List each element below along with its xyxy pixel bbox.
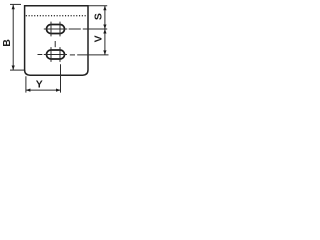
dim Y left extension line: [25, 76, 27, 92]
dim S arrow down to slot1 axis: [103, 25, 106, 30]
slot 2 centerline extension right segment 1: [70, 54, 75, 56]
slot 1 centerline extension right segment 1: [69, 28, 81, 30]
dim B bottom extension line: [10, 69, 24, 71]
slot 2 centerline extension right segment 2 (V bottom extension): [77, 54, 108, 56]
svg-text:Y: Y: [36, 78, 43, 90]
slot 2 centerline horizontal: [44, 54, 67, 56]
vertical centerline dash between slots: [54, 41, 56, 47]
svg-text:V: V: [92, 35, 104, 42]
dim Y right extension line: [60, 64, 62, 92]
dim Y arrow right: [56, 89, 61, 92]
plate outline: [25, 6, 88, 76]
slot 1 centerline vertical right: [59, 22, 61, 37]
dim V arrow up from slot1 axis: [103, 29, 106, 34]
dim B arrow up: [12, 5, 15, 10]
slot 2 lower obround: [47, 50, 65, 59]
slot 2 centerline vertical left: [50, 47, 52, 62]
slot 2 centerline vertical right: [59, 47, 61, 62]
slot 1 centerline extension right segment 2: [83, 28, 107, 30]
dim Y arrow left: [26, 89, 31, 92]
slot 2 centerline left dash: [38, 54, 43, 56]
svg-text:S: S: [92, 13, 104, 20]
dim S arrow up: [103, 6, 106, 11]
dim Y dimension line: [26, 89, 61, 91]
svg-text:B: B: [1, 39, 13, 47]
dim B top extension line: [10, 3, 21, 5]
slot 1 upper obround: [47, 25, 65, 34]
hidden edge dotted line: [26, 15, 88, 17]
slot 1 centerline horizontal: [44, 28, 68, 30]
dim S V dimension line: [104, 6, 106, 55]
dim B arrow down: [12, 66, 15, 71]
dim B dimension line: [12, 5, 14, 70]
slot 1 centerline vertical left: [50, 22, 52, 37]
dim S top extension line: [88, 5, 107, 7]
dim V arrow down: [103, 50, 106, 55]
